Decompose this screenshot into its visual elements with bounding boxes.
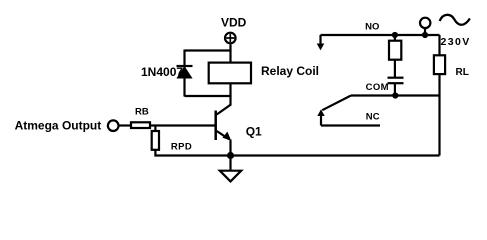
wire collector lead bbox=[217, 96, 231, 115]
relay coil K1 bbox=[209, 63, 251, 84]
resistor snubber bbox=[389, 41, 401, 60]
wire diode loop top bbox=[185, 49, 231, 51]
svg-text:Atmega Output: Atmega Output bbox=[15, 119, 102, 133]
svg-text:VDD: VDD bbox=[221, 15, 247, 29]
svg-text:230V: 230V bbox=[441, 36, 471, 48]
wire right rail top bbox=[438, 35, 440, 56]
NC contact arrow bbox=[317, 109, 324, 125]
wire snubber mid stub bbox=[394, 60, 396, 78]
wire diode loop bottom bbox=[185, 95, 231, 97]
wire right rail bottom bbox=[438, 74, 440, 156]
wire VDD stem bbox=[229, 44, 231, 63]
svg-text:NC: NC bbox=[366, 112, 380, 123]
junction dot NO/snubber bbox=[392, 32, 398, 38]
wire emitter rail to right bbox=[231, 154, 440, 156]
VDD terminal bbox=[225, 33, 236, 44]
junction dot COM/cap bbox=[392, 92, 398, 98]
diode D1 1N4007 bbox=[177, 66, 193, 78]
svg-text:COM: COM bbox=[366, 82, 389, 93]
wire COM rail bbox=[351, 94, 440, 96]
svg-text:RL: RL bbox=[456, 67, 469, 78]
wire snubber cap to COM bbox=[394, 83, 396, 95]
wire diode branch bbox=[183, 50, 185, 97]
transistor Q1 bbox=[216, 111, 232, 141]
input terminal circle bbox=[108, 120, 119, 131]
svg-text:RPD: RPD bbox=[171, 141, 192, 152]
junction dot emitter/ground bbox=[227, 152, 234, 159]
wire NC rail bbox=[321, 124, 380, 126]
wire source stem bbox=[424, 29, 426, 36]
wire emitter lead bbox=[229, 140, 231, 156]
wire RPD top stub bbox=[154, 126, 156, 132]
capacitor snubber bbox=[388, 78, 404, 84]
AC source terminal bbox=[420, 18, 430, 28]
resistor RL bbox=[434, 55, 445, 74]
svg-text:RB: RB bbox=[135, 107, 149, 118]
wire snubber resistor stub bbox=[394, 35, 396, 41]
junction dot NO/source bbox=[422, 32, 428, 38]
wire relay bottom stem bbox=[229, 83, 231, 96]
COM moving contact arm bbox=[322, 96, 351, 111]
svg-text:NO: NO bbox=[365, 21, 379, 32]
wire RPD bottom to ground rail bbox=[155, 150, 230, 156]
svg-text:Q1: Q1 bbox=[246, 125, 262, 139]
NO contact arrow bbox=[317, 35, 325, 50]
AC sine symbol bbox=[440, 15, 470, 25]
ground bbox=[220, 171, 241, 182]
wire NO rail bbox=[321, 34, 440, 36]
wire terminal to RB bbox=[119, 124, 132, 126]
resistor RPD bbox=[152, 131, 159, 150]
wire RB to base bbox=[150, 124, 216, 126]
wire ground stub bbox=[229, 156, 231, 171]
resistor RB bbox=[131, 122, 150, 128]
svg-text:Relay Coil: Relay Coil bbox=[261, 64, 319, 78]
